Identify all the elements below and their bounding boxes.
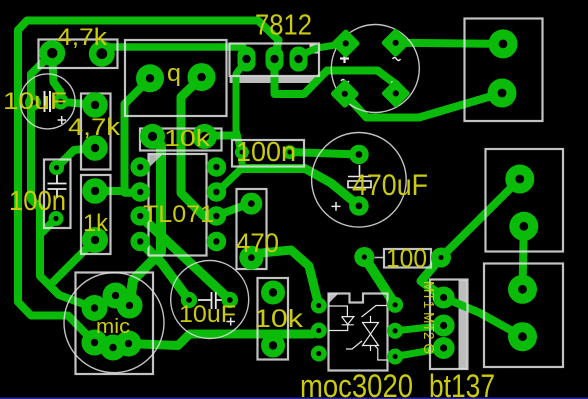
layer: component symbols (white)	[45, 54, 401, 360]
hole X2 pad1	[515, 175, 524, 184]
wire R5 470 bottom pad to moc3020 pin1-left	[251, 250, 318, 306]
hole T1 MT2	[440, 322, 447, 329]
mic M1 pad bottom-center	[100, 335, 126, 361]
hole R6 pad2	[438, 255, 443, 260]
capacitor C5 pad plus	[349, 145, 369, 165]
wire C3 100n right pad to C5 470uF positive pad	[290, 152, 359, 154]
resistor R4 pad2	[82, 227, 108, 253]
hole U1 pin2	[137, 189, 143, 195]
capacitor C5 470uF circle	[312, 133, 407, 228]
connector X1 pad1	[489, 29, 518, 58]
crystal Q1 q outline	[125, 40, 227, 116]
regulator U2 pad3	[290, 47, 308, 72]
svg-text:10k: 10k	[164, 125, 211, 151]
svg-text:100: 100	[386, 243, 427, 273]
capacitor C2 pad2	[49, 211, 64, 226]
resistor R1 4,7k outline	[39, 40, 118, 69]
hole R1 pad2	[96, 48, 107, 59]
hole B1 ac2	[342, 91, 348, 97]
hole U1 pin3	[137, 213, 143, 219]
hole M1 br	[125, 340, 132, 347]
capacitor C4 10uF circle	[171, 261, 249, 339]
hole Q1 pad1	[146, 74, 154, 82]
op-amp U1 pin1	[130, 157, 150, 177]
opto U3 moc3020 outline	[329, 294, 388, 371]
hole B1 minus	[393, 90, 399, 96]
hole C5 minus	[356, 203, 363, 210]
svg-text:100n: 100n	[9, 185, 66, 216]
hole C3 pad1	[240, 150, 245, 155]
resistor R3 pad1	[140, 124, 165, 149]
hole R4 pad2	[91, 236, 99, 244]
capacitor C5 plus	[332, 202, 341, 211]
wire Q1 pad2 down through 10k to TL071 pin3 right	[181, 77, 216, 216]
bridge B1 circle	[331, 25, 419, 113]
opto U3 pin4	[387, 349, 403, 365]
wire junction to C5 470uF negative pad	[243, 169, 359, 206]
wire Q1 pad1 / R4 1k top pad / TL071 pin2 left rail	[125, 78, 151, 192]
mic M1 circle	[64, 273, 164, 373]
hole M1 bc	[109, 344, 116, 351]
wire R4 1k top pad to rail	[95, 187, 125, 195]
hole C4 plus	[186, 297, 192, 303]
svg-text:mic: mic	[96, 316, 130, 338]
svg-text:470uF: 470uF	[352, 169, 428, 202]
capacitor C1 10uF circle	[20, 74, 75, 129]
capacitor C4 plus	[227, 318, 236, 326]
wire 7812 pad3 to bridge TL pad	[299, 43, 346, 56]
capacitor C1 plus	[58, 116, 67, 124]
hole U1 pin7	[213, 189, 219, 195]
capacitor C2 100n outline	[44, 160, 71, 229]
layer: pad drill holes	[30, 40, 528, 360]
hole C2 pad1	[54, 165, 59, 170]
svg-text:MT1 MT2 G: MT1 MT2 G	[420, 281, 437, 354]
crystal Q1 pad2	[188, 63, 216, 91]
opto U3 pin2	[311, 323, 327, 339]
wire mic bottom-right pad to moc3020 pin2-left	[129, 331, 319, 346]
hole X2 pad2	[519, 222, 528, 231]
resistor R6 pad1	[354, 247, 374, 267]
hole R5 pad2	[248, 254, 255, 261]
resistor R3 pad2	[192, 124, 217, 149]
resistor R3 10k outline	[140, 129, 222, 151]
svg-text:10uF: 10uF	[179, 301, 236, 328]
hole R2 pad1	[91, 101, 99, 109]
hole U3 pin3	[316, 351, 321, 356]
resistor R7 pad2	[261, 334, 285, 358]
hole M1 tr	[126, 302, 133, 309]
layer: pads	[25, 28, 538, 365]
hole R6 pad1	[362, 254, 367, 259]
op-amp U1 TL071 outline	[149, 154, 207, 256]
wire branch R4 1k bottom pad into left net	[51, 240, 95, 284]
wire R3 10k right pad to 7812 pad1 vertical	[205, 132, 238, 140]
hole R3 pad1	[148, 132, 157, 141]
op-amp U1 pin2	[130, 182, 150, 202]
bridge B1 pad plus	[331, 29, 361, 59]
resistor R6 lead lines	[375, 257, 435, 259]
triac T1 pad MT2	[433, 315, 455, 337]
capacitor C4 pad plus	[181, 292, 197, 308]
wire 7812 pad2 to bridge BR pad	[275, 60, 396, 94]
capacitor C2 pad1	[49, 160, 64, 175]
connector X3 pad2	[508, 322, 537, 351]
hole R1 pad1	[47, 48, 57, 58]
wire C2 100n top pad to R2 4,7k bottom pad	[57, 148, 96, 168]
wire bridge TR pad to connector X1 pad1	[396, 43, 503, 44]
mic M1 pad bottom-right	[116, 331, 142, 357]
resistor R1 pad1	[39, 40, 65, 66]
wire C1 10uF pad to R2 4,7k top pad	[61, 102, 95, 105]
hole R7 pad2	[269, 341, 277, 349]
resistor R4 1k outline	[81, 175, 111, 254]
hole T1 G	[440, 344, 447, 351]
wire branch C2 100n bottom pad into left net	[40, 219, 56, 235]
hole B1 ac1	[393, 40, 399, 46]
window edge line bottom	[0, 398, 588, 399]
wire TL071 pin3-left diagonal to C4 10uF right pad	[140, 216, 230, 300]
hole B1 plus	[343, 40, 349, 46]
opto U3 internal triac symbol	[346, 306, 388, 361]
svg-text:bt137: bt137	[429, 368, 495, 399]
wire R6 100 left pad to moc3020 pin6-right	[364, 257, 395, 305]
resistor R5 pad1	[240, 193, 262, 215]
svg-text:TL071: TL071	[143, 201, 214, 228]
op-amp U1 pin8	[207, 157, 227, 177]
connector X1 pad2	[488, 79, 517, 108]
hole U1 pin6	[213, 213, 219, 219]
hole U1 pin5	[213, 238, 219, 244]
hole Q1 pad2	[197, 73, 205, 81]
svg-text:q: q	[167, 60, 181, 87]
capacitor C2 plate bars	[48, 174, 67, 198]
wire junction to TL071 pin2 right	[216, 168, 242, 193]
layer: copper traces	[18, 21, 524, 357]
op-amp U1 pin3	[130, 206, 150, 226]
crystal Q1 pad1	[136, 64, 164, 92]
op-amp U1 pin7	[207, 182, 227, 202]
resistor R6 100 outline	[384, 249, 431, 268]
svg-text:moc3020: moc3020	[300, 368, 413, 399]
op-amp U1 pin6	[207, 206, 227, 226]
mic M1 pad top-left	[82, 295, 108, 321]
regulator U2 7812 outline	[230, 44, 320, 77]
capacitor C1 pad minus	[25, 95, 41, 111]
hole R5 pad1	[248, 200, 255, 207]
op-amp U1 pin5	[207, 232, 227, 252]
hole M1 bl	[91, 339, 98, 346]
wire bt137 G to moc3020 pin5-right	[395, 348, 444, 357]
resistor R5 470 outline	[237, 189, 267, 269]
capacitor C3 pad1	[235, 145, 249, 159]
hole U1 pin8	[213, 164, 219, 170]
opto U3 pin6	[387, 297, 403, 313]
wire net from R1 pad1 down left side to mic top-left pad	[31, 53, 95, 308]
triac T1 pad MT1	[433, 287, 455, 309]
resistor R7 10k outline	[258, 278, 289, 360]
hole C2 pad2	[53, 216, 58, 221]
hole X3 pad1	[518, 285, 527, 294]
wire bridge BL pad to connector X1 pad2	[345, 93, 502, 118]
wire R6 100 right pad to connector X2 pad1	[441, 179, 520, 258]
regulator U2 7812 heatsink tab bar	[230, 77, 318, 84]
hole U2 pad1	[242, 55, 250, 63]
hole U3 pin2	[316, 328, 321, 333]
hole C1 minus	[30, 100, 36, 106]
hole U3 pin1	[316, 303, 321, 308]
hole U3 pin5	[393, 328, 398, 333]
wire TL071 pin3-right to R5 470 top pad	[216, 204, 251, 216]
opto U3 pin3	[311, 346, 327, 362]
hole X1 pad1	[499, 40, 508, 49]
svg-text:100n: 100n	[236, 136, 296, 167]
triac T1 bt137 heatsink tab bar	[459, 280, 468, 369]
svg-text:470: 470	[236, 228, 279, 258]
connector X3 pad1	[508, 275, 537, 304]
wire R3 10k left pad down to mic top-right pad	[130, 137, 162, 306]
bridge B1 ac mark bottom-left	[341, 80, 349, 83]
mic M1 pad top-center	[103, 283, 129, 309]
resistor R5 pad2	[239, 246, 263, 270]
regulator U2 7812 corner mark square	[310, 44, 319, 54]
connector X2 outline	[486, 149, 564, 252]
capacitor C1 pad plus	[53, 94, 69, 110]
layer: solid silver fills	[230, 44, 468, 369]
capacitor C4 pad minus	[222, 292, 238, 308]
hole R3 pad2	[200, 132, 209, 141]
op-amp U1 pin4	[130, 232, 150, 252]
wire R1 pad1 to C1 10uF positive pad	[52, 53, 60, 101]
hole C3 pad2	[287, 150, 292, 155]
opto U3 pin5	[387, 323, 403, 339]
mic M1 pad top-right	[117, 293, 143, 319]
hole R2 pad2	[91, 144, 99, 152]
regulator U2 pad2	[266, 47, 284, 72]
hole C1 plus	[58, 99, 64, 105]
capacitor C5 symbol	[348, 165, 371, 177]
mic M1 pad bottom-left	[82, 330, 108, 356]
connector X3 outline	[484, 264, 563, 368]
resistor R6 pad2	[431, 248, 451, 268]
regulator U2 pad1	[238, 47, 256, 72]
resistor R7 pad1	[261, 281, 285, 305]
hole X1 pad2	[498, 89, 507, 98]
wire bt137 MT2 to moc3020 pin4-right	[395, 326, 444, 331]
hole T1 MT1	[440, 294, 447, 301]
opto U3 moc3020 pin1 corner triangle	[329, 294, 339, 304]
op-amp U1 pin1 triangle mark	[149, 154, 164, 168]
hole X3 pad2	[518, 332, 527, 341]
resistor R2 pad1	[82, 92, 108, 118]
capacitor C3 100n outline	[232, 140, 304, 167]
triac T1 pad G	[433, 337, 455, 359]
svg-text:10uF: 10uF	[3, 88, 67, 115]
connector X2 pad1	[505, 165, 534, 194]
wire bt137 MT1 to connector X3 pad2	[444, 298, 523, 337]
hole M1 tc	[112, 292, 119, 299]
hole R4 pad1	[91, 187, 99, 195]
resistor R2 pad2	[82, 135, 108, 161]
hole U2 pad3	[294, 55, 302, 63]
hole C4 minus	[227, 297, 233, 303]
capacitor C1 plate bars	[45, 91, 51, 112]
connector X2 pad2	[509, 212, 538, 241]
svg-text:1k: 1k	[83, 210, 109, 237]
hole U3 pin4	[393, 354, 398, 359]
bridge B1 minus mark	[391, 81, 399, 83]
svg-text:7812: 7812	[255, 10, 312, 42]
hole U3 pin6	[393, 302, 398, 307]
wire GND border loop: mic pad to 7812 pad2	[18, 21, 279, 343]
hole M1 tl	[91, 304, 98, 311]
bridge B1 pad ac2	[330, 79, 360, 109]
capacitor C3 pad2	[283, 145, 297, 159]
opto U3 pin1	[311, 298, 327, 314]
wire R1 pad2 through Q1 box to 7812 pad1	[102, 47, 247, 55]
opto U3 internal LED symbol	[329, 306, 354, 331]
wire connector X2 pad2 to X3 pad1	[523, 226, 524, 289]
resistor R4 pad1	[82, 178, 108, 204]
bridge B1 pad ac1	[381, 28, 411, 58]
bridge B1 plus mark	[340, 54, 349, 63]
connector X1 outline	[465, 19, 543, 122]
svg-text:4,7k: 4,7k	[68, 114, 121, 141]
capacitor C5 pad minus	[349, 196, 369, 216]
capacitor C4 plate bars	[198, 292, 226, 309]
svg-text:4,7k: 4,7k	[57, 24, 108, 51]
wire 7812 pad1 down through C3 100n left pad to junction	[236, 60, 247, 168]
wire R6 100 right pad to bt137 MT1	[421, 258, 444, 298]
bridge B1 ac mark top-right	[393, 58, 401, 61]
bridge B1 pad minus	[381, 79, 411, 109]
hole R7 pad1	[269, 288, 277, 296]
hole U2 pad2	[270, 55, 278, 63]
triac T1 bt137 outline	[430, 280, 468, 370]
hole C5 plus	[356, 151, 363, 158]
svg-text:10k: 10k	[254, 305, 304, 333]
wire TL071 pin4-left diagonal to C4 10uF left pad	[140, 242, 189, 301]
resistor R1 pad2	[89, 41, 115, 67]
resistor R2 4,7k outline	[81, 94, 111, 170]
hole U1 pin4	[137, 238, 143, 244]
mic M1 outline box	[76, 273, 154, 375]
hole U1 pin1	[137, 164, 143, 170]
